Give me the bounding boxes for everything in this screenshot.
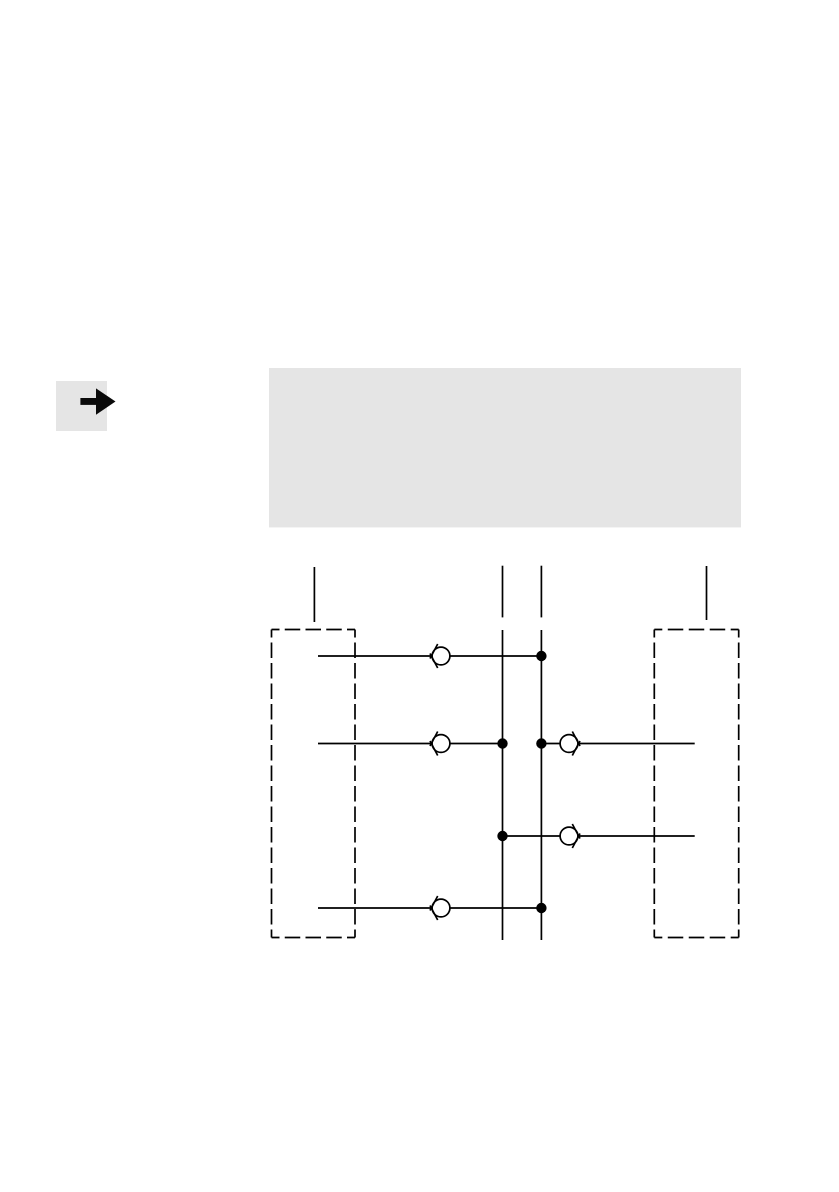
wire row 2 left	[318, 743, 503, 745]
bus line B	[540, 630, 542, 940]
wire row 1	[318, 655, 541, 657]
connector C3	[560, 732, 580, 756]
connector C2	[430, 732, 450, 756]
connector C1	[430, 644, 450, 668]
bus stub B	[540, 566, 542, 618]
junction node row2-busB	[536, 738, 546, 748]
junction node row3-busA	[497, 831, 507, 841]
wire row 4	[318, 907, 541, 909]
left device dashed box	[272, 630, 356, 938]
note icon gray square	[56, 381, 107, 431]
junction node row4-busB	[536, 903, 546, 913]
junction node row1-busB	[536, 651, 546, 661]
note arrow icon	[80, 388, 115, 414]
connector C5	[430, 896, 450, 920]
right device dashed box	[654, 630, 738, 938]
junction node row2-busA	[497, 738, 507, 748]
wire row 3	[503, 835, 695, 837]
connector C4	[560, 824, 580, 848]
note gray box	[269, 368, 741, 527]
right feeder stub	[706, 566, 708, 620]
bus stub A	[502, 566, 504, 618]
bus line A	[502, 630, 504, 940]
left feeder stub	[313, 567, 315, 622]
wire row 2 right	[541, 743, 694, 745]
